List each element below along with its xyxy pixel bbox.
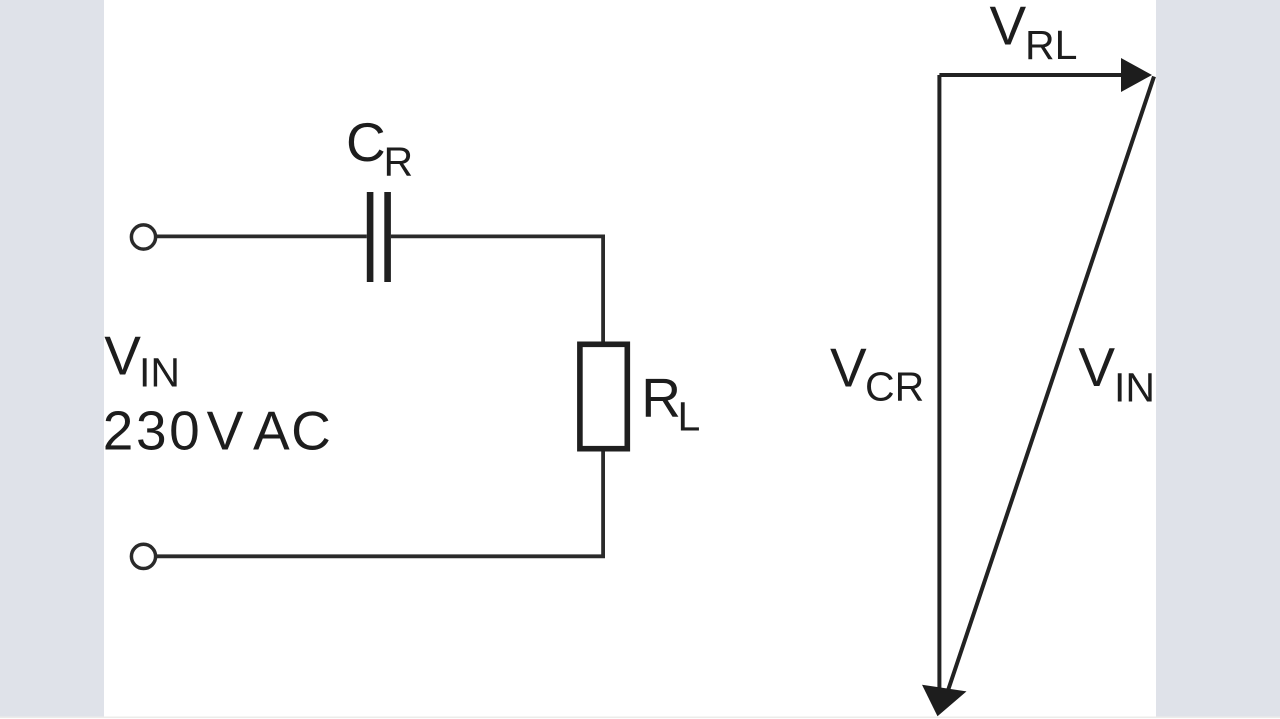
phasor VIN (diagonal vector) (948, 77, 1154, 692)
phasor VRL (horizontal vector) (939, 73, 1124, 77)
svg-text:V: V (104, 324, 141, 386)
svg-text:C: C (346, 111, 386, 173)
svg-text:230: 230 (103, 399, 203, 461)
label 230 V AC (103, 399, 333, 461)
arrowhead at bottom (shared tip of VCR / VIN) (922, 685, 967, 716)
label VCR (830, 337, 924, 410)
bottom hairline (0, 717, 1280, 719)
svg-text:RL: RL (1025, 22, 1077, 68)
left margin strip (0, 0, 104, 717)
svg-text:AC: AC (253, 399, 332, 461)
svg-text:R: R (641, 367, 681, 429)
terminal T2 (bottom-left input) (131, 544, 155, 568)
label RL (641, 367, 700, 440)
svg-text:V: V (1078, 336, 1115, 398)
resistor RL (body) (580, 344, 627, 448)
terminal T1 (top-left input) (131, 225, 155, 249)
svg-text:V: V (990, 0, 1027, 57)
wire: resistor bottom to bottom-left terminal (157, 452, 603, 557)
capacitor CR (plates) (370, 192, 388, 282)
arrowhead VRL (1121, 58, 1152, 92)
svg-text:L: L (678, 394, 701, 440)
svg-text:CR: CR (865, 363, 924, 409)
label CR (346, 111, 413, 184)
wire: capacitor to resistor top (with corner) (391, 236, 603, 341)
svg-text:V: V (830, 337, 867, 399)
svg-text:V: V (207, 399, 244, 461)
wire: top-left terminal to capacitor (156, 234, 367, 238)
svg-text:IN: IN (1114, 364, 1155, 410)
right margin strip (1156, 0, 1280, 717)
svg-text:R: R (384, 138, 414, 184)
svg-text:IN: IN (139, 349, 180, 395)
phasor VCR (vertical vector) (937, 75, 941, 691)
label VIN (source) (104, 324, 180, 395)
label VRL (990, 0, 1078, 68)
label VIN (phasor) (1078, 336, 1155, 410)
